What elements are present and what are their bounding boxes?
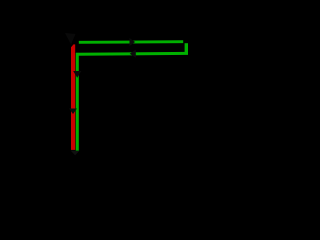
wire: top green horizontal (left-to-right) [79, 40, 183, 43]
black notch cutting red bar top-left corner [71, 44, 74, 47]
wire: right green vertical connector [185, 43, 188, 53]
wire: left green vertical (downward) [76, 53, 79, 151]
red bar (vertical) [71, 44, 75, 149]
arrowhead on top line (points right) [130, 38, 136, 46]
end arrowhead at bottom of red+green (points down) [71, 151, 80, 156]
arrowhead on left green vertical (points down) [73, 71, 81, 78]
start marker (faint dark arrowhead above red bar) [65, 33, 76, 45]
arrowhead on red bar (points down) [69, 109, 77, 115]
wire: bottom green horizontal (right-to-left) [76, 52, 188, 56]
arrowhead on bottom line (points left) [130, 50, 136, 58]
